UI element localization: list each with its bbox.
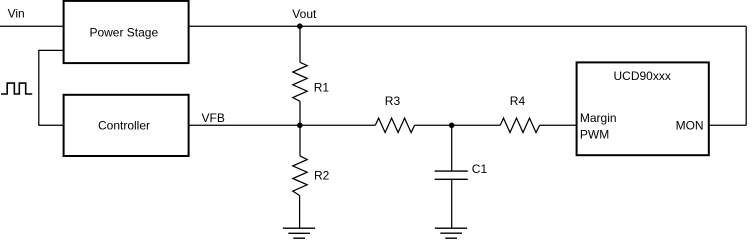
svg-text:C1: C1 — [472, 162, 488, 176]
svg-text:MON: MON — [676, 118, 704, 132]
svg-text:R4: R4 — [510, 94, 526, 108]
svg-text:R1: R1 — [314, 81, 330, 95]
svg-text:Controller: Controller — [98, 119, 150, 133]
svg-text:Vin: Vin — [8, 7, 25, 21]
svg-text:R3: R3 — [385, 94, 401, 108]
svg-text:Margin: Margin — [580, 111, 617, 125]
svg-text:Vout: Vout — [292, 7, 317, 21]
svg-text:Power Stage: Power Stage — [89, 25, 158, 39]
svg-text:R2: R2 — [314, 169, 330, 183]
svg-text:UCD90xxx: UCD90xxx — [614, 69, 671, 83]
svg-text:VFB: VFB — [202, 111, 225, 125]
svg-text:PWM: PWM — [580, 128, 609, 142]
